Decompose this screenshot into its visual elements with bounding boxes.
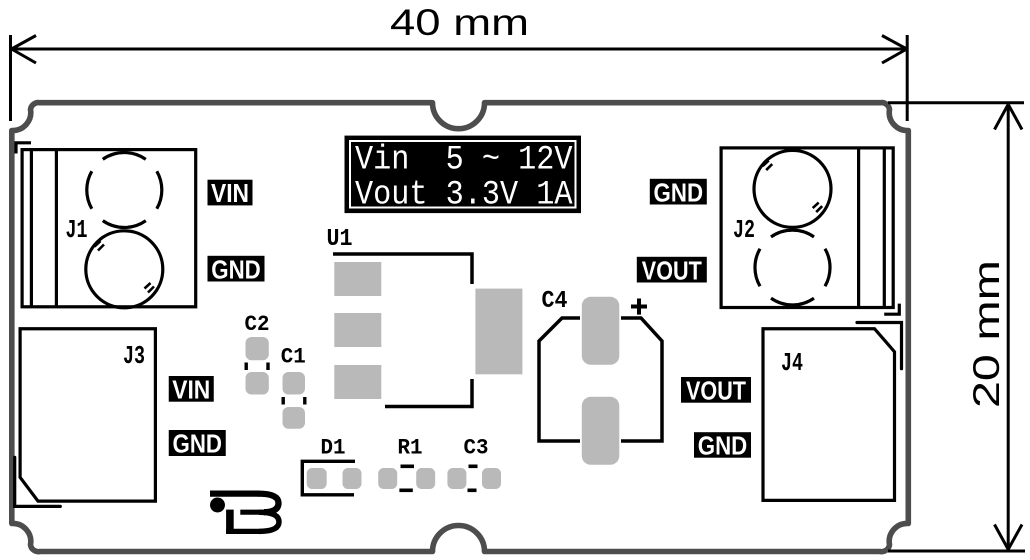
connector J3 outline (20, 329, 155, 501)
arrowhead left (12, 36, 37, 64)
dimension line (12, 48, 907, 51)
U1 tab pad (475, 289, 522, 375)
svg-text:GND: GND (211, 254, 261, 284)
logo bottom bar (226, 529, 259, 534)
connector J1 outline (22, 150, 196, 307)
svg-text:20 mm: 20 mm (966, 260, 1007, 408)
arrowhead right (882, 36, 907, 64)
svg-text:J4: J4 (781, 348, 803, 378)
label VIN (J3) (169, 375, 214, 405)
extension line right (906, 35, 909, 121)
svg-text:R1: R1 (398, 435, 423, 460)
C4 pad + (582, 297, 620, 365)
J3 pin1 bracket (15, 457, 61, 506)
svg-text:C3: C3 (464, 435, 489, 460)
svg-text:U1: U1 (327, 226, 353, 253)
logo dot (210, 498, 225, 513)
J2 pin1 bracket (884, 304, 899, 315)
label GND (J3) (169, 429, 226, 459)
svg-text:C4: C4 (542, 288, 568, 315)
svg-text:GND: GND (654, 177, 704, 207)
svg-text:J3: J3 (123, 341, 145, 371)
logo (210, 494, 279, 534)
label GND (J1) (208, 254, 265, 284)
C4 pad - (582, 397, 620, 465)
connector J4 outline (763, 329, 895, 501)
label VOUT (J2) (637, 255, 707, 285)
extension line left (9, 35, 12, 121)
connector J2 outline (721, 148, 893, 308)
U1 outline (333, 254, 472, 284)
J1 bottom circle ticks (95, 241, 155, 293)
svg-text:C2: C2 (245, 312, 270, 337)
dimension right: 20 mm (888, 103, 1025, 551)
regulator U1 (327, 226, 523, 407)
label VOUT (J4) (681, 376, 751, 406)
svg-text:VOUT: VOUT (642, 255, 702, 285)
label GND (J4) (694, 431, 751, 461)
extension line top (888, 101, 1024, 104)
C4 outline (539, 318, 580, 441)
svg-text:D1: D1 (321, 435, 346, 460)
capacitor C2 (245, 312, 270, 395)
J1 bottom circle (86, 231, 163, 308)
svg-text:Vin 5 ~ 12V: Vin 5 ~ 12V (355, 142, 573, 180)
label VIN (J1) (208, 178, 253, 208)
capacitor C3 (447, 435, 501, 490)
svg-text:J1: J1 (66, 215, 88, 245)
capacitor C1 (281, 345, 306, 429)
svg-text:GND: GND (698, 431, 748, 461)
arrowhead bottom (995, 525, 1023, 550)
J4 pin1 bracket (857, 323, 902, 369)
J2 top circle ticks (763, 161, 823, 213)
svg-text:C1: C1 (281, 345, 306, 370)
resistor R1 (378, 435, 435, 490)
logo upper bowl (258, 494, 279, 513)
J1 pin1 bracket (16, 143, 31, 154)
board outline (12, 103, 909, 552)
logo middle bar (240, 510, 264, 515)
svg-text:VIN: VIN (211, 178, 249, 208)
U1 pad 3 (334, 365, 381, 399)
C4 plus sign (631, 299, 647, 315)
svg-text:40 mm: 40 mm (390, 2, 529, 43)
svg-text:VIN: VIN (172, 375, 210, 405)
arrowhead top (995, 104, 1023, 129)
dimension line (1007, 105, 1010, 550)
J1 top circle (broken arcs) (87, 153, 162, 228)
J2 top circle (754, 150, 831, 227)
svg-text:J2: J2 (733, 215, 755, 245)
display box (345, 136, 582, 215)
logo stem (226, 510, 234, 534)
J2 bottom circle (broken arcs) (755, 230, 830, 305)
diode D1 (302, 435, 361, 494)
logo lower bowl (259, 512, 279, 531)
logo top bar (210, 490, 259, 496)
label GND (J2) (650, 177, 707, 207)
U1 pad 1 (334, 262, 381, 296)
capacitor C4 (539, 288, 662, 465)
U1 pad 2 (334, 313, 381, 347)
extension line bottom (888, 550, 1025, 553)
svg-text:Vout 3.3V 1A: Vout 3.3V 1A (355, 177, 573, 215)
dimension top: 40 mm (11, 35, 908, 121)
svg-text:VOUT: VOUT (686, 376, 746, 406)
svg-text:GND: GND (173, 429, 223, 459)
